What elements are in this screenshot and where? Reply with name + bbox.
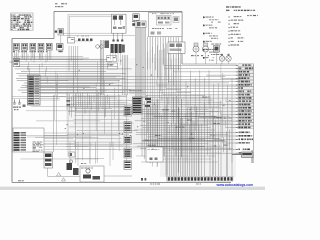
svg-text:www.autocatalogs.com: www.autocatalogs.com [216, 183, 254, 187]
